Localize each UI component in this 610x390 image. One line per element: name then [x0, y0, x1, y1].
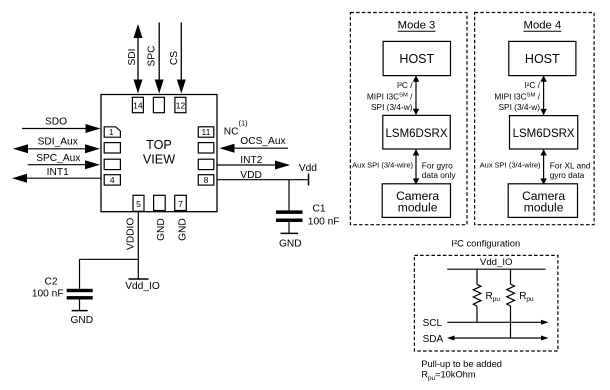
svg-text:I²C /: I²C /: [397, 80, 413, 90]
svg-text:12: 12: [176, 100, 186, 110]
SCL line: [423, 318, 549, 329]
wire branch to C2: [80, 259, 139, 289]
Mode 3 title: [398, 20, 436, 32]
svg-text:LSM6DSRX: LSM6DSRX: [513, 128, 575, 140]
svg-text:1: 1: [109, 127, 114, 137]
ground GND (C2): [70, 311, 93, 327]
SDI arrow (bidirectional, top): [127, 24, 143, 94]
svg-text:SDO: SDO: [45, 116, 67, 127]
pad 9: [198, 159, 214, 169]
svg-text:data only: data only: [422, 170, 457, 180]
svg-text:I²C configuration: I²C configuration: [451, 237, 520, 248]
svg-text:C1: C1: [313, 203, 326, 214]
resistor Rpu (SDA pull-up): [507, 269, 534, 338]
INT1 signal (arrow out): [12, 167, 101, 183]
LSM6DSRX box (Mode 4): [510, 116, 578, 149]
SPC arrow (down, top): [147, 23, 164, 94]
C1 value labels: [308, 203, 340, 227]
svg-text:module: module: [524, 201, 564, 215]
arrow HOST-LSM6DSRX (Mode 4): [540, 75, 546, 115]
SDA line: [423, 334, 549, 345]
svg-text:VDD: VDD: [240, 170, 262, 181]
pad 1 (chamfered): [104, 127, 120, 137]
Vdd_IO terminal: [125, 279, 160, 292]
svg-text:Vdd_IO: Vdd_IO: [125, 281, 160, 292]
svg-text:SCL: SCL: [423, 318, 443, 329]
HOST box (Mode 4): [509, 41, 576, 75]
svg-text:Aux SPI (3/4-wire): Aux SPI (3/4-wire): [480, 161, 541, 170]
capacitor C1: [276, 210, 303, 222]
pad 6: [154, 195, 166, 210]
svg-text:SPI (3/4-w): SPI (3/4-w): [371, 102, 413, 112]
arrow LSM6DSRX-Camera (Mode 3): [413, 149, 419, 185]
wire VDD to C1: [288, 180, 290, 211]
svg-text:GND: GND: [177, 218, 188, 241]
Mode 4 title: [524, 20, 562, 32]
capacitor C2: [67, 289, 93, 300]
svg-text:Aux SPI (3/4-wire): Aux SPI (3/4-wire): [352, 161, 413, 170]
svg-text:SPI (3/4-w): SPI (3/4-w): [499, 102, 541, 112]
svg-text:INT1: INT1: [47, 167, 69, 178]
LSM6DSRX box (Mode 3): [383, 115, 451, 149]
svg-text:GND: GND: [70, 315, 93, 326]
resistor Rpu (SCL pull-up): [473, 269, 500, 322]
pad 11: [198, 127, 214, 137]
svg-text:SPC_Aux: SPC_Aux: [36, 153, 80, 164]
wire pin5 down: [137, 212, 139, 280]
svg-text:module: module: [398, 201, 438, 215]
SDO signal (arrow into chip): [22, 116, 101, 133]
svg-text:Pull-up to be added: Pull-up to be added: [421, 359, 502, 369]
svg-text:GND: GND: [156, 218, 167, 241]
Mode 4 dashed frame: [475, 13, 594, 225]
svg-text:GND: GND: [279, 239, 302, 250]
svg-text:SDI: SDI: [127, 49, 138, 66]
svg-text:OCS_Aux: OCS_Aux: [240, 136, 285, 147]
svg-text:CS: CS: [169, 51, 180, 65]
pad 7: [175, 195, 187, 210]
svg-text:VDDIO: VDDIO: [126, 218, 137, 250]
C2 value labels: [32, 277, 64, 300]
Camera module box (Mode 4): [508, 184, 577, 218]
XL gyro note (Mode 4): [550, 161, 591, 180]
svg-text:HOST: HOST: [525, 52, 560, 66]
SPC_Aux signal (arrow into chip): [28, 153, 100, 169]
svg-text:8: 8: [204, 175, 209, 185]
chip U1 outline (TOP VIEW): [101, 95, 217, 212]
svg-text:gyro data: gyro data: [550, 170, 585, 180]
pad 5: [133, 195, 144, 211]
I2C configuration dashed frame: [414, 255, 558, 351]
svg-text:SPC: SPC: [147, 46, 158, 67]
pad 13: [153, 97, 164, 112]
pad 10: [198, 143, 214, 153]
pad 3: [104, 159, 120, 169]
svg-text:100 nF: 100 nF: [32, 288, 64, 299]
svg-text:7: 7: [178, 199, 183, 209]
svg-text:SDI_Aux: SDI_Aux: [38, 136, 78, 147]
Vdd_IO rail wire: [447, 268, 545, 270]
CS arrow (down, top): [169, 23, 186, 94]
svg-text:I²C /: I²C /: [524, 80, 540, 90]
gyro note (Mode 3): [422, 161, 457, 180]
svg-text:5: 5: [136, 199, 141, 209]
svg-text:Vdd_IO: Vdd_IO: [480, 257, 513, 268]
arrow LSM6DSRX-Camera (Mode 4): [540, 149, 546, 185]
Vdd terminal: [299, 163, 317, 185]
svg-text:14: 14: [133, 100, 143, 110]
svg-text:VIEW: VIEW: [143, 152, 175, 166]
svg-text:SDA: SDA: [423, 334, 444, 345]
svg-text:11: 11: [202, 127, 211, 137]
wire C2 to ground: [79, 300, 81, 311]
svg-text:C2: C2: [44, 277, 57, 288]
svg-text:INT2: INT2: [240, 155, 262, 166]
svg-text:100 nF: 100 nF: [308, 217, 340, 228]
pad 14: [132, 97, 143, 112]
svg-text:Vdd: Vdd: [299, 163, 317, 174]
VDD wire from pin 8: [217, 170, 309, 181]
pad 8: [198, 175, 214, 185]
pad 2: [104, 143, 120, 153]
pull-up note: [421, 359, 502, 382]
HOST box (Mode 3): [383, 41, 450, 75]
svg-text:4: 4: [110, 175, 115, 185]
bus labels (Mode 4): [494, 80, 540, 112]
svg-text:TOP: TOP: [146, 138, 172, 152]
Camera module box (Mode 3): [382, 184, 450, 218]
arrow HOST-LSM6DSRX (Mode 3): [413, 75, 419, 115]
svg-text:HOST: HOST: [399, 52, 434, 66]
INT2 signal (arrow out): [217, 155, 290, 169]
chip label TOP VIEW: [143, 138, 175, 166]
Mode 3 dashed frame: [350, 13, 467, 225]
ground GND (C1): [279, 233, 302, 249]
svg-text:Mode 3: Mode 3: [398, 20, 436, 32]
svg-text:LSM6DSRX: LSM6DSRX: [386, 128, 448, 140]
pad 12: [175, 97, 186, 112]
wire C1 to ground: [288, 222, 290, 233]
SDI_Aux signal (bidirectional): [13, 136, 100, 153]
OCS_Aux signal (arrow into chip): [220, 136, 289, 153]
bus labels (Mode 3): [367, 80, 413, 112]
svg-text:Mode 4: Mode 4: [524, 20, 562, 32]
pad 4: [104, 175, 120, 185]
